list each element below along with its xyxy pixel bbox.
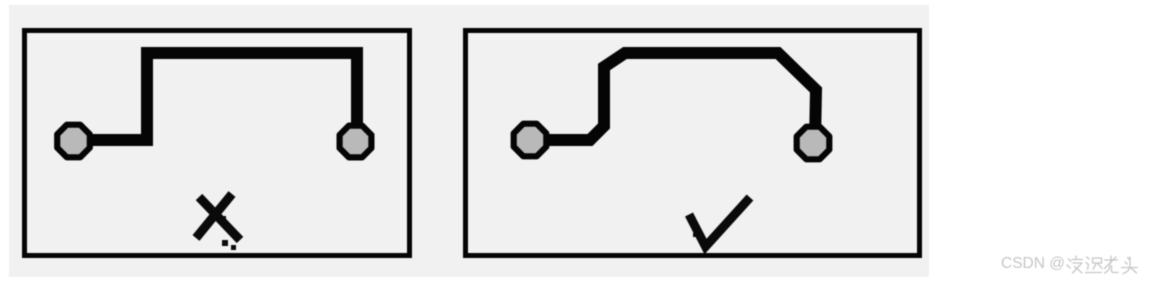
pad P3 left	[514, 124, 547, 157]
glyph chi	[1086, 257, 1103, 273]
watermark: Chinese glyphs drawn as paths (ling chi lao tou)	[1067, 256, 1138, 274]
pad P1 left	[57, 125, 90, 158]
X mark (wrong)	[196, 194, 240, 240]
check mark (correct)	[689, 198, 750, 247]
svg-text:CSDN @: CSDN @	[1001, 255, 1065, 272]
glyph lao	[1105, 256, 1119, 273]
pad P4 right	[797, 127, 830, 160]
left PCB panel (wrong routing, 90-degree corners)	[25, 31, 410, 256]
wire trace with 45-degree corners	[530, 53, 816, 142]
wire trace with right-angle corners	[73, 53, 357, 141]
panel frame right	[466, 31, 920, 256]
panel frame left	[25, 31, 410, 256]
X mark drip dots	[222, 216, 237, 250]
pad P2 right	[340, 126, 372, 158]
right PCB panel (correct routing, 45-degree corners)	[466, 31, 920, 256]
glyph ling	[1067, 256, 1083, 273]
diagram background	[9, 5, 929, 277]
glyph tou	[1122, 257, 1138, 274]
check mark speckle	[693, 233, 697, 237]
